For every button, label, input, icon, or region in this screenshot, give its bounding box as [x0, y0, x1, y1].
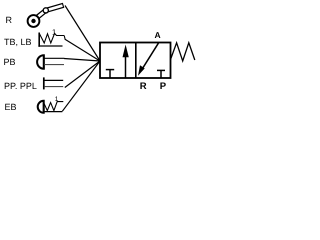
svg-text:R: R	[140, 81, 147, 92]
svg-text:EB: EB	[5, 102, 17, 112]
svg-text:P: P	[160, 81, 167, 92]
svg-text:A: A	[155, 30, 161, 40]
svg-text:PP. PPL: PP. PPL	[4, 81, 37, 91]
svg-text:1: 1	[55, 96, 59, 103]
svg-text:TB, LB: TB, LB	[4, 37, 32, 47]
svg-text:PB: PB	[4, 57, 16, 67]
svg-text:1: 1	[52, 27, 56, 36]
svg-text:R: R	[6, 15, 13, 25]
